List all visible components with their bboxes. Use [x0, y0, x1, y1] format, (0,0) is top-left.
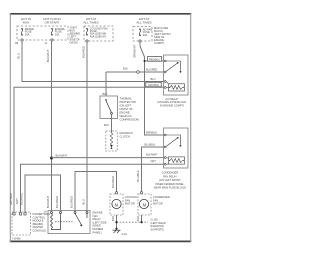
- svg-text:MOTOR: MOTOR: [153, 202, 163, 206]
- svg-text:BLU/BLK: BLU/BLK: [136, 170, 140, 182]
- svg-text:OR START: OR START: [45, 21, 60, 25]
- fuse F2 exit circle: [51, 39, 53, 41]
- node HOT AT ALL TIMES header (fuse 3): [83, 17, 98, 25]
- PCM dashed box: [12, 212, 31, 235]
- svg-text:ALL TIMES: ALL TIMES: [83, 21, 98, 25]
- inline connector on BLK wire: [137, 71, 140, 74]
- condenser fan relay internals: [164, 134, 184, 165]
- inline connector above cooling fan motor: [115, 192, 117, 194]
- wire engine fan relay pin3 up and over to cooling fan motor: [75, 172, 117, 212]
- svg-text:MAGNETIC: MAGNETIC: [120, 131, 134, 135]
- joint box (dashed enclosure for fuse F1 and F2): [17, 26, 68, 40]
- svg-text:RUN: RUN: [23, 21, 30, 25]
- thermal protector label: [120, 97, 140, 122]
- wire BLK from A/C relay to thermal protector: [106, 71, 164, 73]
- node HOT AT ALL TIMES header (fuse 4): [136, 17, 151, 25]
- branch to A/C relay switch pin: [145, 60, 165, 62]
- fuse F4 exit circle: [139, 40, 141, 42]
- boxed tag GRY/BLK: [146, 82, 161, 87]
- svg-text:PROTECTOR: PROTECTOR: [120, 100, 136, 104]
- svg-text:BLK: BLK: [111, 216, 115, 221]
- wire BLU/BLK from condenser relay switch to condenser fan motor: [142, 147, 165, 192]
- condenser fan relay K2 box: [164, 128, 189, 168]
- svg-text:SUPPORT): SUPPORT): [151, 227, 164, 231]
- PCM pins: [13, 213, 15, 215]
- boxed tag RED/BLU: [148, 57, 162, 62]
- svg-text:GRY: GRY: [151, 159, 157, 163]
- fuse F2 ENGINE 15A: [51, 28, 53, 36]
- svg-text:G-06: G-06: [122, 234, 128, 236]
- svg-text:BLK: BLK: [123, 67, 128, 71]
- svg-text:DASH): DASH): [70, 41, 78, 45]
- svg-text:M: M: [143, 202, 147, 207]
- ground label: [151, 218, 166, 232]
- svg-text:BLU/RED: BLU/RED: [146, 68, 157, 72]
- wire from splice to condenser fan relay pin BLK/WHT: [52, 157, 165, 159]
- svg-text:ENGINE,: ENGINE,: [120, 111, 131, 115]
- svg-text:RED/BLU: RED/BLU: [149, 57, 160, 61]
- svg-text:BLU/RED: BLU/RED: [111, 176, 115, 188]
- svg-text:BLK/RED: BLK/RED: [81, 46, 85, 58]
- fuse F3 exit circle: [86, 40, 88, 42]
- ground wires from motors: [116, 215, 118, 229]
- A/C relay internals: [164, 60, 184, 91]
- ground G-06: [115, 228, 117, 230]
- svg-text:BLK/WHT: BLK/WHT: [46, 195, 50, 208]
- svg-text:BLU: BLU: [151, 77, 156, 81]
- svg-text:PANEL): PANEL): [93, 230, 102, 234]
- svg-text:BRN/WHT: BRN/WHT: [133, 44, 137, 57]
- fuse box 4 (dashed, main fuse block): [133, 27, 152, 42]
- svg-text:BLU: BLU: [81, 199, 85, 204]
- svg-text:MOTOR: MOTOR: [125, 202, 135, 206]
- fuse F1 METER 15A: [21, 28, 23, 36]
- engine fan relay K3 box: [48, 211, 90, 234]
- svg-text:M: M: [115, 202, 119, 207]
- node HOT IN RUN header: [21, 17, 31, 25]
- svg-text:CONSOLE): CONSOLE): [33, 229, 47, 233]
- main fuse block label: [154, 26, 171, 45]
- svg-text:BRN/BLU: BRN/BLU: [146, 131, 157, 135]
- svg-text:NEAR A/C: NEAR A/C: [120, 114, 132, 118]
- condenser fan motor label: [153, 195, 170, 206]
- svg-text:BLU/WHT: BLU/WHT: [46, 49, 50, 62]
- svg-text:IN ENGINE COMPT): IN ENGINE COMPT): [160, 103, 184, 107]
- svg-text:CLUTCH: CLUTCH: [120, 134, 131, 138]
- cooling fan motor circle: [112, 199, 121, 208]
- border frame: [10, 13, 192, 242]
- svg-text:COMPRESSOR): COMPRESSOR): [120, 118, 140, 122]
- svg-text:COMPT): COMPT): [154, 41, 164, 45]
- A/C relay K1 box: [164, 55, 189, 95]
- fuse F3 COOLING FAN: [86, 28, 88, 36]
- svg-text:15A: 15A: [25, 32, 30, 36]
- svg-text:(ON LEFT: (ON LEFT: [120, 104, 132, 108]
- svg-text:BLU: BLU: [17, 53, 21, 58]
- engine fan relay internals: [51, 212, 89, 230]
- svg-text:BLK/WHT: BLK/WHT: [56, 153, 68, 157]
- wire GRY/BLK from A/C relay coil to PCM pin 1: [14, 87, 164, 212]
- svg-text:BLU/RED: BLU/RED: [55, 196, 59, 208]
- svg-text:FRONT OF: FRONT OF: [120, 107, 134, 111]
- cooling fan motor M1 (dashed box): [110, 194, 123, 215]
- condenser fan motor M2 (dashed box): [138, 194, 151, 215]
- svg-text:GRY/BLK: GRY/BLK: [148, 83, 159, 87]
- wire BLU/RED from PCM pin3 to engine fan relay pin 2: [25, 175, 61, 212]
- fuse F4 ADD FAN 30A: [139, 29, 141, 37]
- A/C relay label: [157, 97, 187, 107]
- svg-text:(ON LEFT FRONT: (ON LEFT FRONT: [159, 178, 181, 182]
- wire W4: fuse F4 down, diagonal, to A/C relay and condenser relay (RED/BLU): [140, 42, 164, 135]
- splice S1 on W2: [50, 157, 53, 160]
- magnetic clutch coil: [110, 133, 113, 149]
- svg-text:15A: 15A: [55, 32, 60, 36]
- svg-text:INNER FENDER PANEL,: INNER FENDER PANEL,: [155, 182, 184, 186]
- svg-text:BLK: BLK: [104, 123, 109, 127]
- svg-text:NEAR MAIN FUSE BLOCK): NEAR MAIN FUSE BLOCK): [154, 186, 187, 190]
- condenser fan motor circle: [139, 199, 148, 208]
- magnetic clutch label: [120, 131, 134, 138]
- thermal protector S2 box: [100, 96, 118, 119]
- wire W2: fuse F2 straight down to splice (BLU/WHT then BLK/WHT): [51, 41, 53, 211]
- wire W3: fuse F3 down to engine fan relay pin 4 (BLU): [86, 42, 88, 211]
- svg-text:T-D456: T-D456: [12, 237, 21, 241]
- svg-text:THERMAL: THERMAL: [120, 97, 133, 101]
- fuse box 3 (dashed): [84, 26, 113, 41]
- engine fan relay label: [93, 211, 107, 235]
- magnetic clutch L1 (dashed): [106, 131, 118, 151]
- node HOT IN RUN OR START header: [43, 17, 60, 25]
- svg-text:BLK/WHT: BLK/WHT: [146, 152, 158, 156]
- svg-text:BLK: BLK: [136, 216, 140, 221]
- wire BLK thermal protector to magnetic clutch: [111, 114, 113, 133]
- svg-text:ALL TIMES: ALL TIMES: [136, 21, 151, 25]
- PCM label: [33, 212, 51, 233]
- svg-text:BLU/BLK: BLU/BLK: [145, 142, 156, 146]
- wire W1: fuse F1 down then right to A/C relay coil (BLU): [22, 41, 164, 82]
- junction dot: [144, 60, 146, 62]
- svg-text:CONDENSER: CONDENSER: [162, 171, 179, 175]
- svg-text:1M: 1M: [15, 41, 19, 45]
- joint box label: [70, 26, 81, 45]
- fuse F1 exit circle: [21, 39, 23, 41]
- svg-text:FAN RELAY: FAN RELAY: [163, 174, 177, 178]
- svg-text:30A: 30A: [143, 33, 148, 37]
- wire GRY from condenser relay coil to PCM pin 2: [21, 164, 165, 212]
- svg-text:40A (1995-97): 40A (1995-97): [90, 34, 107, 38]
- thermal protector internals: [105, 99, 112, 114]
- cooling fan motor label: [125, 195, 137, 206]
- svg-text:BLU/RED: BLU/RED: [69, 196, 73, 208]
- svg-text:BLK: BLK: [103, 92, 108, 96]
- svg-text:GRY/BLK: GRY/BLK: [9, 193, 13, 205]
- inline connector above condenser fan motor: [140, 192, 142, 194]
- condenser fan relay label: [154, 171, 187, 190]
- svg-text:GRY: GRY: [15, 198, 19, 204]
